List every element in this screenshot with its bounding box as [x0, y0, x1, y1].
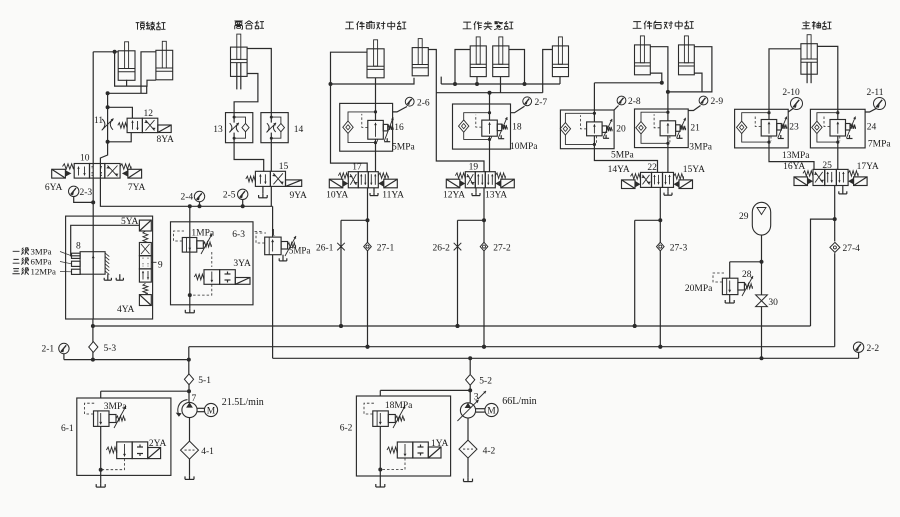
- node bus 84: [329, 82, 333, 86]
- box 6-2 enclosure: [356, 396, 450, 476]
- relief valve 28 20MPa: [722, 278, 738, 294]
- node 6-3 bottom: [188, 293, 192, 297]
- wire valve15 left port to tank: [262, 186, 264, 193]
- title 主轴缸: [802, 21, 832, 29]
- svg-text:M: M: [487, 406, 496, 416]
- svg-text:6-1: 6-1: [61, 424, 74, 434]
- svg-text:1: 1: [271, 229, 276, 239]
- svg-text:6-2: 6-2: [340, 424, 353, 434]
- cylinder front-centering 2 (A): [412, 48, 428, 76]
- svg-text:2-1: 2-1: [42, 345, 55, 355]
- wire left cyl bottom to box 20: [650, 73, 662, 83]
- svg-text:8YA: 8YA: [157, 135, 175, 145]
- wire box23 down to valve 25 A-top: [769, 148, 814, 170]
- valve 17 3-position 10YA 11YA: [348, 172, 358, 188]
- wire cyl right port through box 24: [817, 46, 838, 109]
- svg-text:14YA: 14YA: [608, 165, 630, 175]
- node bus2 box18 drop: [488, 91, 492, 95]
- clamp bus 1 y=84: [441, 83, 560, 85]
- wire branch to box 6-2: [380, 389, 470, 391]
- solenoid 6YA: [52, 169, 66, 178]
- wire 13 to valve 15: [234, 143, 264, 172]
- drop valve 19 to buses with 26-2/27-2: [483, 188, 485, 347]
- one-way throttle valve 13: [226, 113, 253, 143]
- svg-text:7YA: 7YA: [128, 183, 146, 193]
- wire bus2 into box 18: [489, 93, 491, 104]
- pilot dashed 28: [713, 273, 724, 282]
- cylinder rear-centering right: [679, 45, 695, 75]
- wire bus to second cylinder A bottom: [331, 78, 415, 84]
- spring valve 10 right: [120, 164, 131, 169]
- svg-text:29: 29: [739, 212, 749, 222]
- valve 10 3-position 4-way: [74, 164, 89, 179]
- wire pump7 to filter 4-1: [189, 418, 191, 442]
- wire 5-2 to pump 3: [469, 385, 471, 402]
- check valve 5-1: [188, 360, 190, 375]
- one-way throttle valve 14: [261, 113, 288, 143]
- svg-text:23: 23: [789, 123, 799, 133]
- reducing valve box 23: [735, 109, 789, 148]
- svg-text:2-8: 2-8: [628, 97, 641, 107]
- svg-text:12YA: 12YA: [443, 191, 465, 201]
- node loop1: [106, 91, 110, 95]
- wire line-D pressure bus y=358.3: [273, 357, 859, 359]
- svg-text:25: 25: [822, 161, 832, 171]
- svg-text:14: 14: [294, 125, 304, 135]
- reducing valve box 18: [453, 104, 511, 149]
- node line-P x=93: [91, 358, 95, 362]
- svg-text:1YA: 1YA: [431, 439, 449, 449]
- valve 15 2-position 9YA: [255, 171, 270, 186]
- wire P vertical x=93.2: [92, 52, 94, 216]
- svg-text:4-1: 4-1: [201, 447, 214, 457]
- motor M2 shaft: [476, 408, 485, 410]
- node line-B 27-3: [658, 345, 662, 349]
- svg-text:2-4: 2-4: [181, 193, 194, 203]
- wire valve12 top port: [108, 107, 133, 118]
- pilot dashed 1YA down: [380, 458, 405, 470]
- tank below valve 25: [842, 186, 844, 191]
- svg-text:7: 7: [192, 394, 197, 404]
- wire cyl left port to valve 17 A: [331, 52, 368, 172]
- gauge 2-2: [858, 352, 860, 358]
- tank below 28: [729, 299, 731, 303]
- wire bus1 left end up: [440, 77, 442, 84]
- wire cyl left port through box 23 to valve 25: [769, 49, 801, 110]
- node line-A 22-branch: [633, 324, 637, 328]
- node loop2: [106, 105, 110, 109]
- motor M2: [485, 403, 498, 416]
- wire 6-1 to tank: [100, 470, 102, 483]
- wire main through box8: [92, 216, 94, 319]
- svg-text:5-2: 5-2: [479, 377, 492, 387]
- title 顶镦缸: [136, 22, 166, 31]
- title 工件前对中缸: [345, 21, 406, 30]
- svg-text:3MPa: 3MPa: [31, 247, 52, 257]
- wire left cyl top to box 21: [650, 47, 668, 92]
- node junction line-P/5-1: [187, 358, 191, 362]
- svg-text:18MPa: 18MPa: [385, 401, 413, 411]
- svg-text:4YA: 4YA: [117, 305, 135, 315]
- filter 4-1: [181, 441, 199, 459]
- svg-text:2-2: 2-2: [867, 344, 880, 354]
- svg-text:8: 8: [76, 242, 81, 252]
- reducing valve box 16: [340, 103, 393, 151]
- wire box24 into valve 25 B: [837, 148, 839, 170]
- pilot dashed 2YA down: [101, 459, 125, 470]
- svg-text:6-3: 6-3: [232, 230, 245, 240]
- wire clutch bottom port: [234, 74, 258, 113]
- title 离合缸: [234, 21, 264, 30]
- wire cylB bottom to bus1: [476, 77, 478, 84]
- valve 12 2-position: [127, 118, 142, 132]
- svg-text:13YA: 13YA: [485, 191, 507, 201]
- cylinder top-forge right: [156, 50, 173, 80]
- tank drains of valve 8: [107, 274, 109, 277]
- svg-text:2YA: 2YA: [149, 439, 167, 449]
- spring valve 12: [118, 123, 127, 129]
- svg-text:27-2: 27-2: [493, 244, 511, 254]
- svg-text:9: 9: [158, 261, 163, 271]
- wire cylD bottom to bus1: [559, 77, 561, 84]
- valve 9 vertical 3-position: [139, 220, 151, 231]
- cylinder clamp C: [493, 46, 509, 77]
- wire 6-2 to tank: [379, 470, 381, 484]
- wire valve 25 drop to 27-4 junction: [834, 186, 836, 220]
- wire 14 to valve 15: [270, 143, 272, 172]
- valve 3YA in 6-3: [204, 270, 220, 285]
- gauge 2-4: [194, 191, 204, 201]
- wire valve15 right port down to line 206: [270, 186, 272, 206]
- labels stage pressures: [13, 248, 29, 255]
- svg-text:22: 22: [647, 163, 657, 173]
- gauge 2-5: [238, 189, 248, 199]
- gauge 2-8: [617, 96, 626, 105]
- svg-text:4-2: 4-2: [483, 447, 496, 457]
- svg-text:17: 17: [352, 163, 362, 173]
- filter 4-2: [459, 440, 477, 458]
- gauge 2-9: [699, 96, 708, 105]
- wire main through 6-3: [189, 206, 191, 295]
- spring valve 10 left: [63, 164, 74, 169]
- box 6-3 enclosure: [171, 222, 254, 305]
- svg-text:12MPa: 12MPa: [31, 267, 57, 277]
- wire clutch rod-side port: [247, 49, 271, 113]
- tank below 6-1: [100, 483, 102, 487]
- multi-stage pressure valve 8: [80, 252, 105, 275]
- wire loop to valve 12 top: [108, 86, 147, 93]
- svg-text:27-4: 27-4: [843, 244, 861, 254]
- node valve10 below: [91, 200, 95, 204]
- gauge 2-6: [405, 97, 414, 106]
- accumulator 29: [752, 202, 770, 235]
- wire vertical x=107.6: [107, 93, 109, 150]
- throttle valve 11: [102, 119, 105, 130]
- wire line-B left riser at x=188.8: [188, 347, 190, 360]
- wire pump3 to filter 4-2: [467, 418, 469, 440]
- pilot dashed 6-2: [364, 403, 374, 414]
- svg-text:5YA: 5YA: [121, 217, 139, 227]
- svg-text:2-11: 2-11: [867, 88, 884, 98]
- pilot dashed 6-3 left: [174, 231, 185, 241]
- node loop3: [106, 140, 110, 144]
- valve 1 relief 5MPa: [272, 206, 274, 237]
- drop valve 22 to buses with 27-3: [659, 187, 661, 346]
- node 6-1 bottom: [99, 468, 103, 472]
- cylinder main-shaft double-rod: [801, 44, 817, 74]
- wire line-A right riser to 27-4 junction: [811, 219, 835, 326]
- gauge 2-3: [69, 186, 79, 196]
- shutoff valve 30: [756, 295, 768, 307]
- reducing valve box 24: [810, 109, 865, 148]
- valve 22 3-position 14YA 15YA: [641, 172, 652, 187]
- cylinder clamp D: [552, 46, 568, 77]
- node 6-2 bottom: [378, 468, 382, 472]
- wire cylC bottom to bus2: [500, 77, 502, 93]
- svg-text:2-3: 2-3: [80, 188, 93, 198]
- svg-text:3: 3: [474, 393, 479, 403]
- svg-text:26-2: 26-2: [433, 244, 451, 254]
- node line-B 27-1: [366, 345, 370, 349]
- cylinder rear-centering left: [635, 45, 651, 75]
- tank below filter 4-1: [189, 475, 191, 479]
- wire line-P left pump line y=359.6: [64, 359, 189, 361]
- wire 28 to tank: [729, 295, 731, 299]
- svg-text:6MPa: 6MPa: [31, 257, 52, 267]
- gauge 2-7: [523, 97, 532, 106]
- node feed: [113, 50, 117, 54]
- pilot dashed valve1: [256, 233, 266, 243]
- svg-text:2-10: 2-10: [782, 88, 800, 98]
- tank below 6-2: [379, 483, 381, 487]
- svg-text:12: 12: [144, 109, 154, 119]
- wire box16 to valve 17 B: [375, 151, 377, 172]
- svg-text:20: 20: [616, 125, 626, 135]
- svg-text:2-9: 2-9: [711, 97, 724, 107]
- svg-text:30: 30: [768, 298, 778, 308]
- svg-text:3MPa: 3MPa: [104, 402, 127, 412]
- clamp bus 2 y=92.7: [436, 92, 542, 94]
- svg-text:10YA: 10YA: [326, 191, 348, 201]
- tank below filter 4-2: [467, 478, 469, 482]
- wire box20 to valve 22 A-top: [594, 149, 657, 173]
- wire line-A return bus y=326: [93, 325, 811, 327]
- wire branch to box 6-1: [101, 390, 189, 392]
- wire inner pilot loop box8: [71, 225, 140, 256]
- wire accumulator down: [761, 235, 763, 295]
- motor M pump7 shaft: [197, 407, 204, 409]
- svg-text:3YA: 3YA: [233, 259, 251, 269]
- svg-text:7MPa: 7MPa: [868, 140, 891, 150]
- wire left vertical x=93 from box9 to line-P: [92, 319, 94, 360]
- svg-text:10: 10: [80, 154, 90, 164]
- wire filter to tank: [189, 459, 191, 475]
- wire 6-3 to tank: [189, 295, 191, 309]
- svg-text:66L/min: 66L/min: [502, 396, 536, 407]
- cylinder clutch double-rod: [231, 47, 248, 76]
- pump 7: [182, 402, 197, 417]
- title 工件后对中缸: [633, 21, 694, 30]
- wire cylC top to bus1: [509, 50, 525, 85]
- tank below valve 17: [373, 188, 375, 192]
- wire 30 to line-D: [761, 307, 763, 359]
- solenoid 7YA: [128, 169, 142, 178]
- relief valve 1MPa in 6-3: [182, 238, 197, 253]
- node line-D x=761: [760, 356, 764, 360]
- wire cylD left port to bus2: [543, 50, 553, 93]
- wire branch to valve 28: [730, 261, 762, 263]
- cylinder clamp B: [470, 46, 486, 77]
- tank below valve 19: [475, 188, 477, 192]
- check valve 27-4: [834, 219, 836, 241]
- svg-text:5MPa: 5MPa: [611, 151, 634, 161]
- wire box18 to valve 19 B: [489, 149, 491, 172]
- svg-text:11YA: 11YA: [382, 191, 404, 201]
- svg-text:24: 24: [867, 123, 877, 133]
- reducing valve box 21: [635, 109, 689, 148]
- valve 1YA in 6-2: [397, 442, 413, 458]
- svg-text:10MPa: 10MPa: [510, 142, 538, 152]
- wire feed to left cylinder: [93, 51, 118, 53]
- svg-text:1MPa: 1MPa: [191, 229, 214, 239]
- check valve 5-2: [469, 358, 471, 374]
- gauge 2-1: [59, 343, 69, 353]
- svg-text:5MPa: 5MPa: [289, 246, 311, 256]
- tank below valve 15: [262, 194, 264, 198]
- pilot dashed 3YA: [190, 284, 212, 295]
- valve 19 3-position 12YA 13YA: [465, 172, 475, 188]
- svg-text:15: 15: [279, 162, 289, 172]
- reducing valve box 20: [560, 110, 614, 149]
- motor M1: [204, 403, 217, 416]
- svg-text:16YA: 16YA: [783, 162, 805, 172]
- wire box21 into valve 22 B: [667, 148, 669, 173]
- svg-text:18: 18: [512, 123, 522, 133]
- wire filter 4-2 to tank: [467, 458, 469, 478]
- svg-text:17YA: 17YA: [857, 162, 879, 172]
- wire T vertical x=100.4 below valve10: [100, 164, 272, 207]
- valve 2YA in 6-1: [117, 442, 133, 459]
- wire line-B distribution bus y=346.7: [189, 346, 835, 348]
- node pump3 branch: [468, 388, 472, 392]
- node line-A x=93: [91, 324, 95, 328]
- svg-text:20MPa: 20MPa: [685, 284, 713, 294]
- svg-text:13: 13: [213, 125, 223, 135]
- wire relief to box bottom: [100, 426, 102, 469]
- node line-A 26-2: [456, 324, 460, 328]
- wire cyl A top port to valve 19 riser: [428, 50, 484, 172]
- title 工作夹紧缸: [463, 21, 514, 30]
- svg-text:3MPa: 3MPa: [689, 142, 712, 152]
- pilot dashed right of 6-3 to valve1: [253, 232, 262, 239]
- wire valve1 to line-D: [272, 255, 274, 359]
- tank valve 1: [282, 255, 284, 258]
- wire left-cyl bottom loop: [115, 52, 156, 86]
- solenoid 8YA: [158, 125, 171, 133]
- pump 3 variable: [460, 403, 475, 418]
- svg-text:2-7: 2-7: [535, 98, 548, 108]
- wire cyl1 bottom into box 16: [375, 78, 377, 104]
- svg-text:27-3: 27-3: [670, 244, 688, 254]
- tank below valve 22: [667, 187, 669, 191]
- svg-text:5MPa: 5MPa: [392, 143, 415, 153]
- node accumulator branch: [760, 260, 764, 264]
- node line-D 5-2: [468, 356, 472, 360]
- check valve 5-3: [89, 342, 98, 353]
- wire valve12 bottom port: [108, 133, 132, 142]
- svg-text:2-5: 2-5: [223, 191, 236, 201]
- node line-B 27-2: [482, 345, 486, 349]
- valve 25 3-position 16YA 17YA: [813, 169, 825, 185]
- svg-text:15YA: 15YA: [683, 165, 705, 175]
- svg-text:6YA: 6YA: [45, 183, 63, 193]
- wire right cyl bottom to loop: [694, 73, 702, 92]
- wire right cyl top loop: [668, 47, 712, 92]
- drop valve 17 to buses with 26-1/27-1: [367, 188, 369, 347]
- svg-text:13MPa: 13MPa: [782, 151, 810, 161]
- pilot dashed 6-1: [85, 403, 96, 414]
- box 8-9 enclosure: [66, 216, 153, 319]
- wire relief 6-2 to bottom: [379, 426, 381, 469]
- svg-text:28: 28: [742, 270, 752, 280]
- svg-text:5-3: 5-3: [104, 344, 117, 354]
- node 27-4 top: [833, 217, 837, 221]
- svg-text:M: M: [207, 406, 216, 416]
- wire cylB top to bus1: [455, 50, 470, 85]
- wire 5-1 to pump 7: [188, 384, 190, 402]
- tank below 6-3: [189, 309, 191, 313]
- svg-text:21.5L/min: 21.5L/min: [222, 397, 264, 408]
- node line-A 26-1: [339, 324, 343, 328]
- svg-text:19: 19: [469, 163, 479, 173]
- wire right-cyl rod port: [141, 52, 156, 94]
- cylinder top-forge left: [118, 51, 135, 81]
- relief valve 18MPa in 6-2: [373, 411, 389, 427]
- svg-text:26-1: 26-1: [316, 244, 334, 254]
- svg-text:27-1: 27-1: [377, 244, 395, 254]
- svg-text:2-6: 2-6: [417, 99, 430, 109]
- svg-text:5-1: 5-1: [198, 376, 211, 386]
- node pump7 branch: [187, 389, 191, 393]
- relief valve 3MPa in 6-1: [94, 411, 110, 427]
- svg-text:9YA: 9YA: [290, 191, 308, 201]
- box 6-1 enclosure: [77, 398, 171, 475]
- svg-text:11: 11: [94, 116, 103, 126]
- svg-text:21: 21: [690, 124, 700, 134]
- svg-text:16: 16: [394, 123, 404, 133]
- cylinder front-centering: [367, 49, 384, 78]
